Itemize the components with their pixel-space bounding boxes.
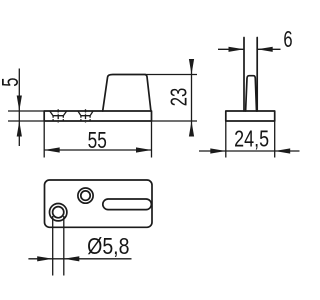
plan view plate (45, 180, 153, 227)
plan view countersunk hole inner (53, 207, 64, 218)
dimension 23 (145, 59, 197, 137)
plan view countersunk hole outer (50, 204, 67, 221)
svg-text:55: 55 (88, 129, 107, 154)
side view plate outline (44, 111, 151, 121)
end view tab outer lines (244, 38, 257, 112)
hole 1 centerline (57, 109, 59, 123)
end view base rect (226, 111, 275, 121)
dimension 5 (0, 69, 24, 147)
dimension diameter 5,8 (28, 216, 131, 276)
countersunk hole 1 side profile (50, 111, 67, 121)
plan view slot (103, 199, 152, 210)
dimension 55 (44, 121, 151, 158)
hole 2 centerline (85, 109, 87, 123)
svg-text:6: 6 (283, 27, 292, 52)
dimension 6 (218, 27, 293, 52)
svg-text:23: 23 (167, 88, 192, 106)
svg-text:Ø5,8: Ø5,8 (87, 234, 129, 260)
plan view hole 2 outer (78, 188, 93, 203)
svg-text:5: 5 (0, 78, 24, 87)
svg-text:24,5: 24,5 (234, 126, 269, 152)
dimension 24,5 (199, 121, 300, 158)
end view hump silhouette (246, 76, 257, 111)
plan view hole 2 inner (81, 191, 90, 200)
side view hump (103, 75, 151, 112)
extension lines left for dim 5 (8, 111, 44, 121)
countersunk hole 2 side profile (78, 111, 93, 121)
